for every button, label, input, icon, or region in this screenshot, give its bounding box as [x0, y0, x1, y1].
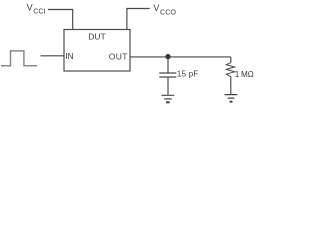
svg-text:DUT: DUT	[88, 32, 105, 42]
junction node dot	[165, 54, 170, 59]
svg-text:V: V	[153, 3, 159, 13]
ground under resistor	[225, 95, 238, 99]
node VCCI label	[27, 2, 46, 15]
wire down to resistor R1	[230, 57, 232, 63]
wire capacitor to ground	[167, 77, 169, 95]
wire junction to capacitor	[167, 57, 169, 73]
svg-text:15 pF: 15 pF	[177, 70, 199, 79]
svg-text:IN: IN	[65, 51, 74, 61]
node VCCO label	[153, 3, 176, 17]
wire resistor to ground	[230, 77, 232, 94]
wire input to IN pin	[41, 55, 65, 57]
wire VCCO to DUT top	[127, 9, 150, 31]
wire VCCI to DUT top	[48, 10, 73, 31]
svg-text:V: V	[27, 2, 33, 12]
ground under capacitor	[162, 95, 175, 99]
svg-text:1 MΩ: 1 MΩ	[235, 70, 254, 79]
svg-text:CCO: CCO	[160, 8, 176, 17]
DUT box U1	[64, 30, 130, 72]
resistor R1 zigzag	[226, 63, 234, 77]
wire OUT to resistor	[130, 56, 231, 58]
svg-text:OUT: OUT	[109, 52, 128, 62]
svg-text:CCI: CCI	[33, 7, 45, 16]
capacitor C1 plates	[159, 73, 176, 77]
pulse input source symbol	[1, 51, 37, 66]
